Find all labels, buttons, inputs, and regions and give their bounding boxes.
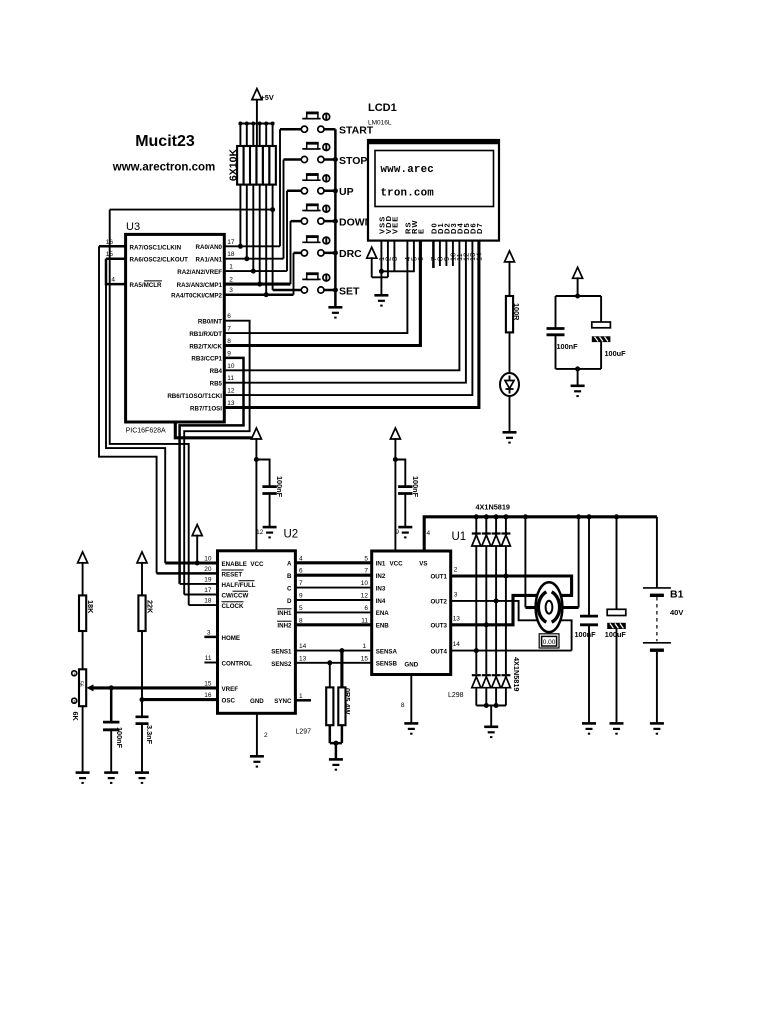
wire RB4 to LCD D4 — [224, 241, 459, 371]
svg-text:10: 10 — [361, 580, 369, 587]
wire STOP to RA1 — [283, 160, 285, 259]
svg-text:17: 17 — [227, 239, 235, 246]
wire bus to left descender — [110, 209, 273, 211]
svg-text:12: 12 — [227, 388, 235, 395]
wire LCD RW to ground — [381, 241, 414, 272]
wire rail drop to motor right — [578, 517, 580, 608]
capacitor 100uF motor side electrolytic — [605, 517, 627, 724]
wire U2 SENS1 to U1 SENSA — [295, 650, 371, 652]
IC U2 L297 — [218, 529, 312, 736]
junction diodes to OUT rows — [503, 574, 508, 579]
LCD D0 stub — [432, 241, 435, 268]
svg-text:CW/CCW: CW/CCW — [222, 593, 249, 600]
wire NE caps bottom rail — [556, 369, 602, 386]
resistor pack RP1 6X10K — [228, 122, 276, 185]
svg-text:56: 56 — [78, 681, 84, 687]
svg-text:OSC: OSC — [222, 698, 236, 705]
svg-text:14: 14 — [475, 253, 484, 261]
svg-text:SET: SET — [339, 285, 360, 297]
wire OUT4 routing — [451, 650, 572, 652]
svg-text:15: 15 — [361, 655, 369, 662]
wire pot to ground — [82, 706, 84, 772]
motor value box 0.00 — [539, 634, 559, 648]
svg-text:RB2/TX/CK: RB2/TX/CK — [189, 343, 222, 350]
junction U2 VCC cap — [254, 457, 259, 462]
U1 GND wire — [410, 675, 412, 724]
LCD1 LM016L display — [367, 102, 500, 241]
svg-text:2: 2 — [454, 567, 458, 574]
wire LCD VSS to ground — [380, 241, 382, 296]
svg-text:1: 1 — [362, 643, 366, 650]
svg-text:D7: D7 — [475, 222, 484, 234]
ground pot — [76, 773, 90, 783]
svg-text:18K: 18K — [86, 600, 95, 614]
wire pack column1 to RA0 row — [239, 185, 241, 247]
svg-text:B1: B1 — [670, 589, 684, 601]
wire U3 pin16 to U2 RESET — [99, 245, 126, 248]
button DRC — [294, 236, 363, 260]
svg-text:IN4: IN4 — [376, 598, 386, 605]
button SET — [273, 273, 360, 297]
svg-text:3.3nF: 3.3nF — [145, 725, 154, 745]
wire OUT2 routing — [451, 601, 572, 651]
ground U1 cap — [395, 527, 412, 537]
svg-text:4X1N5819: 4X1N5819 — [512, 657, 521, 692]
U3 pin numbers — [106, 239, 235, 407]
LCD D2 stub — [445, 241, 447, 266]
svg-text:3: 3 — [229, 287, 233, 294]
wire U3 pin15 to U2 ENABLE — [106, 257, 126, 260]
svg-text:18: 18 — [227, 251, 235, 258]
junction OSC — [140, 697, 145, 702]
wire U2 INH1 to U1 ENA — [295, 611, 371, 613]
ground LED — [503, 432, 517, 442]
junction col1 RA0 — [238, 244, 243, 249]
U1 side pin numbers — [361, 555, 369, 662]
svg-text:6: 6 — [364, 605, 368, 612]
U2 CWCCW stub — [184, 594, 217, 596]
svg-text:ENABLE: ENABLE — [222, 561, 247, 568]
svg-text:8: 8 — [401, 702, 405, 709]
wire sense resistors join — [330, 725, 342, 759]
svg-text:2: 2 — [264, 732, 268, 739]
ground sense resistors — [329, 759, 343, 769]
svg-text:20: 20 — [204, 566, 212, 573]
wire U2 B to U1 IN2 — [295, 574, 371, 577]
wire OUT3 to motor — [451, 595, 540, 624]
svg-text:19: 19 — [204, 576, 212, 583]
wire U2 D to U1 IN4 — [295, 599, 371, 601]
button UP — [287, 174, 354, 198]
U2 CONTROL stub — [204, 662, 217, 664]
battery B1 40V — [643, 517, 684, 724]
junction col2 RA1 — [244, 256, 249, 261]
svg-text:7: 7 — [299, 580, 303, 587]
U2 RESET stub — [157, 572, 218, 575]
svg-text:RA1/AN1: RA1/AN1 — [196, 256, 223, 263]
svg-text:IN3: IN3 — [376, 585, 386, 592]
svg-text:RA2/AN2/VREF: RA2/AN2/VREF — [177, 269, 222, 276]
svg-text:RB6/T1OSO/T1CKI: RB6/T1OSO/T1CKI — [167, 393, 222, 400]
svg-text:17: 17 — [204, 587, 212, 594]
U2 GND wire — [256, 713, 258, 756]
svg-text:100nF: 100nF — [575, 630, 597, 639]
svg-text:HALF/FULL: HALF/FULL — [222, 582, 256, 589]
svg-text:D: D — [287, 598, 292, 605]
svg-text:B: B — [287, 573, 292, 580]
svg-text:3: 3 — [207, 629, 211, 636]
title Mucit23 — [112, 133, 215, 174]
ground U1 — [404, 723, 418, 733]
svg-text:www.arectron.com: www.arectron.com — [112, 162, 215, 174]
wire pack column2 to RA1 row — [246, 185, 248, 259]
svg-text:+5V: +5V — [261, 93, 274, 102]
capacitor 100nF motor side — [575, 517, 599, 724]
svg-text:40V: 40V — [670, 608, 683, 617]
capacitor 100nF U1 decoupling — [395, 460, 420, 528]
svg-text:RB0/INT: RB0/INT — [198, 319, 222, 326]
svg-text:CLOCK: CLOCK — [222, 603, 245, 610]
wire RA2 row — [224, 270, 287, 272]
svg-text:LCD1: LCD1 — [368, 102, 397, 114]
power +5V arrow 22K — [137, 552, 147, 596]
U2 CLOCK stub — [189, 604, 218, 606]
resistor sense 0R5 4W right — [338, 648, 352, 725]
potentiometer 6K — [71, 669, 93, 721]
wire rail drop to motor left — [524, 517, 526, 608]
svg-text:22K: 22K — [145, 600, 154, 614]
svg-text:100nF: 100nF — [275, 476, 284, 498]
svg-text:6X10K: 6X10K — [228, 149, 240, 182]
svg-text:OUT3: OUT3 — [430, 623, 447, 630]
resistor R? 100R — [506, 296, 521, 332]
svg-text:100uF: 100uF — [605, 630, 627, 639]
svg-text:11: 11 — [227, 375, 234, 382]
wire bus descender to U2 CLOCK — [110, 210, 189, 605]
power +5V arrow LCD — [367, 247, 377, 277]
svg-text:OUT2: OUT2 — [430, 599, 447, 606]
svg-text:0.00: 0.00 — [543, 639, 556, 646]
power +5V arrow U2 VCC — [251, 428, 261, 551]
wire RA0 row — [224, 245, 280, 247]
wire LCD VDD — [372, 241, 388, 278]
svg-text:U1: U1 — [452, 531, 467, 543]
wire NE caps top rail — [556, 295, 602, 297]
wire DRC to RA4 — [293, 253, 295, 295]
svg-text:A: A — [287, 561, 292, 568]
wire VREF row — [93, 686, 218, 689]
svg-text:13: 13 — [299, 655, 307, 662]
svg-text:LM016L: LM016L — [368, 120, 392, 127]
junction col5 RA4 — [264, 292, 269, 297]
svg-text:9: 9 — [227, 350, 231, 357]
svg-text:6K: 6K — [71, 712, 80, 722]
svg-text:SYNC: SYNC — [274, 698, 292, 705]
diode group 4X1N5819 top — [472, 503, 511, 675]
wire 22K to OSC — [141, 631, 143, 717]
svg-text:VEE: VEE — [391, 216, 400, 234]
motor stepper — [536, 582, 563, 632]
svg-text:7: 7 — [364, 568, 368, 575]
resistor 18K — [79, 595, 95, 631]
svg-text:RA5/MCLR: RA5/MCLR — [130, 282, 162, 289]
svg-text:14: 14 — [453, 641, 461, 648]
svg-text:HOME: HOME — [222, 635, 241, 642]
U1 pin names — [376, 561, 448, 669]
capacitor 100nF NE — [547, 296, 579, 369]
wire 100R to LED — [509, 332, 511, 373]
junction VREF 100nF — [109, 685, 114, 690]
wire OUT1 to motor — [451, 576, 572, 595]
ground 100uF motor side — [610, 723, 624, 733]
svg-text:L297: L297 — [296, 729, 312, 736]
resistor sense 0R5 4W left — [326, 660, 333, 725]
rail junction dots — [474, 514, 479, 519]
svg-text:Mucit23: Mucit23 — [135, 133, 195, 150]
U2 pin names — [222, 561, 293, 705]
LCD D1 stub — [439, 241, 441, 266]
wire 18K to pot — [82, 631, 84, 669]
ground 100nF motor side — [582, 723, 596, 733]
wire DOWN to RA3 — [290, 221, 292, 284]
svg-text:RB3/CCP1: RB3/CCP1 — [191, 356, 222, 363]
junction col6 bus — [270, 207, 275, 212]
svg-text:14: 14 — [299, 643, 307, 650]
resistor 22K — [138, 595, 154, 631]
wire RA1 row — [224, 258, 283, 260]
svg-text:7: 7 — [227, 326, 231, 333]
svg-text:9: 9 — [395, 529, 399, 536]
junction col3 RA2 — [251, 269, 256, 274]
U1 OUT pin numbers — [427, 530, 461, 648]
U2 HALFFULL stub — [180, 583, 218, 585]
svg-text:ENB: ENB — [376, 623, 390, 630]
svg-text:100nF: 100nF — [115, 727, 124, 749]
svg-text:OUT1: OUT1 — [430, 574, 447, 581]
wire U2 INH2 to U1 ENB — [295, 623, 371, 626]
wire U2 C to U1 IN3 — [295, 587, 371, 589]
svg-text:18: 18 — [204, 598, 212, 605]
power +5V arrow near U2 ENABLE — [192, 525, 202, 566]
svg-text:9: 9 — [299, 593, 303, 600]
svg-text:0R5 4W: 0R5 4W — [343, 688, 352, 714]
ground 3.3nF — [135, 773, 149, 783]
junction U1 VCC cap — [393, 457, 398, 462]
power +5V arrow U1 VCC — [390, 428, 400, 551]
wire RB1 to LCD RS — [224, 241, 407, 334]
svg-text:INH2: INH2 — [277, 623, 292, 630]
svg-text:100R: 100R — [512, 303, 521, 321]
IC U3 PIC16F628A — [126, 221, 225, 435]
ground diodes — [484, 727, 498, 737]
wire U3 VDD to +5V — [175, 422, 256, 438]
wire pack column4 to RA3 row — [259, 185, 261, 285]
svg-text:12: 12 — [256, 529, 264, 536]
svg-text:100nF: 100nF — [411, 476, 420, 498]
wire LCD VEE — [393, 241, 395, 272]
svg-text:RB7/T1OSI: RB7/T1OSI — [190, 405, 222, 412]
svg-text:100nF: 100nF — [557, 342, 579, 351]
ground NE caps — [571, 386, 585, 396]
IC U1 L298 — [372, 531, 467, 699]
wire RA4 row — [224, 293, 293, 296]
U2 SYNC stub — [295, 699, 311, 702]
wire U3 pin4 MCLR stub — [106, 259, 126, 284]
wire buttons common rail — [334, 129, 337, 307]
svg-text:ENA: ENA — [376, 610, 390, 617]
wire VS supply rail — [424, 517, 657, 551]
ground B1 — [650, 723, 664, 733]
power +5V arrow NE caps — [573, 267, 583, 296]
capacitor 100nF U2 decoupling — [256, 460, 284, 528]
svg-text:PIC16F628A: PIC16F628A — [126, 428, 166, 435]
svg-text:SENSA: SENSA — [376, 648, 398, 655]
wire RB7 to LCD D7 — [224, 241, 479, 408]
svg-text:5: 5 — [299, 605, 303, 612]
svg-text:RB4: RB4 — [210, 368, 223, 375]
ground U2 — [250, 756, 264, 766]
svg-text:4: 4 — [111, 277, 115, 284]
wire pack column3 to RA2 row — [252, 185, 254, 272]
svg-text:RA6/OSC2/CLKOUT: RA6/OSC2/CLKOUT — [130, 257, 189, 264]
svg-text:RA4/T0CKI/CMP2: RA4/T0CKI/CMP2 — [171, 293, 222, 300]
svg-text:VS: VS — [419, 561, 427, 568]
svg-text:10: 10 — [227, 363, 235, 370]
svg-text:GND: GND — [404, 662, 418, 669]
button DOWN — [291, 204, 373, 228]
junction LCD VSS — [379, 269, 384, 274]
svg-text:RA7/OSC1/CLKIN: RA7/OSC1/CLKIN — [130, 244, 182, 251]
svg-text:DRC: DRC — [339, 248, 362, 260]
U2 HOME stub — [204, 636, 217, 639]
wire RB0 to U2 CWCCW — [184, 321, 249, 595]
svg-text:IN1: IN1 — [376, 561, 386, 568]
svg-text:INH1: INH1 — [277, 610, 292, 617]
svg-text:L298: L298 — [448, 692, 464, 699]
wire RA3 row — [224, 283, 290, 286]
svg-text:UP: UP — [339, 186, 354, 198]
wire OSC row — [142, 698, 218, 701]
LCD pin numbers — [377, 253, 484, 261]
svg-text:GND: GND — [250, 698, 264, 705]
svg-text:11: 11 — [205, 655, 212, 662]
ground U2 cap — [256, 527, 277, 537]
svg-text:OUT4: OUT4 — [430, 648, 447, 655]
svg-text:www.arec: www.arec — [381, 164, 434, 176]
svg-text:RA3/AN3/CMP1: RA3/AN3/CMP1 — [177, 282, 223, 289]
button START — [280, 112, 374, 136]
LCD D3 stub — [452, 241, 454, 266]
U2 pin numbers — [204, 555, 306, 700]
wire RB2 to LCD E — [224, 241, 420, 346]
svg-text:SENS2: SENS2 — [271, 661, 292, 668]
ground buttons rail — [328, 307, 342, 317]
power +5V arrow 18K — [78, 552, 88, 596]
U3 right pin names — [167, 244, 222, 412]
svg-text:6: 6 — [227, 313, 231, 320]
svg-text:RA0/AN0: RA0/AN0 — [196, 244, 223, 251]
svg-text:VCC: VCC — [250, 561, 264, 568]
svg-text:1: 1 — [229, 264, 233, 271]
power +5V arrow above resistor pack — [252, 89, 274, 146]
svg-text:VCC: VCC — [390, 561, 404, 568]
svg-text:SENSB: SENSB — [376, 661, 398, 668]
svg-text:U2: U2 — [284, 529, 299, 541]
svg-text:C: C — [287, 585, 292, 592]
svg-text:3: 3 — [454, 591, 458, 598]
ground LCD VSS — [374, 295, 388, 305]
svg-text:1: 1 — [299, 693, 303, 700]
svg-text:U3: U3 — [126, 221, 140, 233]
svg-text:CONTROL: CONTROL — [222, 661, 253, 668]
wire LED to ground — [509, 396, 511, 432]
wire pack column6 down to SET row — [272, 185, 274, 290]
wire RB6 to LCD D6 — [224, 241, 472, 396]
svg-text:E: E — [417, 228, 426, 234]
svg-text:4: 4 — [427, 530, 431, 537]
power +5V arrow LED branch — [505, 251, 515, 296]
wire RB3 to U2 HALFFULL — [180, 358, 244, 584]
svg-text:tron.com: tron.com — [381, 188, 435, 200]
U2 ENABLE stub — [165, 561, 217, 564]
wire U2 A to U1 IN1 — [295, 561, 371, 564]
capacitor 100nF VREF — [103, 688, 124, 773]
svg-text:13: 13 — [453, 615, 461, 622]
svg-text:RB1/RX/DT: RB1/RX/DT — [189, 331, 222, 338]
svg-text:4X1N5819: 4X1N5819 — [476, 503, 511, 512]
wire RB5 to LCD D5 — [224, 241, 466, 383]
ground 100nF VREF — [104, 773, 118, 783]
svg-text:5: 5 — [364, 555, 368, 562]
button STOP — [284, 143, 368, 167]
diode group 4X1N5819 bottom — [472, 657, 521, 727]
svg-text:VREF: VREF — [222, 686, 239, 693]
wire U2 SENS2 to U1 SENSB — [295, 662, 371, 664]
svg-text:12: 12 — [361, 593, 369, 600]
capacitor 3.3nF — [136, 717, 155, 773]
svg-text:RESET: RESET — [222, 571, 243, 578]
svg-text:STOP: STOP — [339, 155, 367, 167]
svg-text:6: 6 — [416, 257, 425, 261]
junction col4 RA3 — [257, 282, 262, 287]
LED D? power indicator — [500, 373, 519, 396]
wire START to RA0 — [279, 129, 281, 246]
capacitor 100uF NE electrolytic — [592, 296, 626, 369]
U3 left pin names — [130, 244, 189, 289]
svg-text:IN2: IN2 — [376, 573, 386, 580]
svg-text:RB5: RB5 — [210, 381, 223, 388]
svg-text:11: 11 — [361, 617, 368, 624]
wire UP to RA2 — [286, 191, 288, 271]
svg-text:100uF: 100uF — [605, 349, 627, 358]
svg-text:SENS1: SENS1 — [271, 649, 292, 656]
wire pack column5 to RA4 row — [265, 185, 267, 295]
LCD pin labels — [378, 215, 485, 234]
